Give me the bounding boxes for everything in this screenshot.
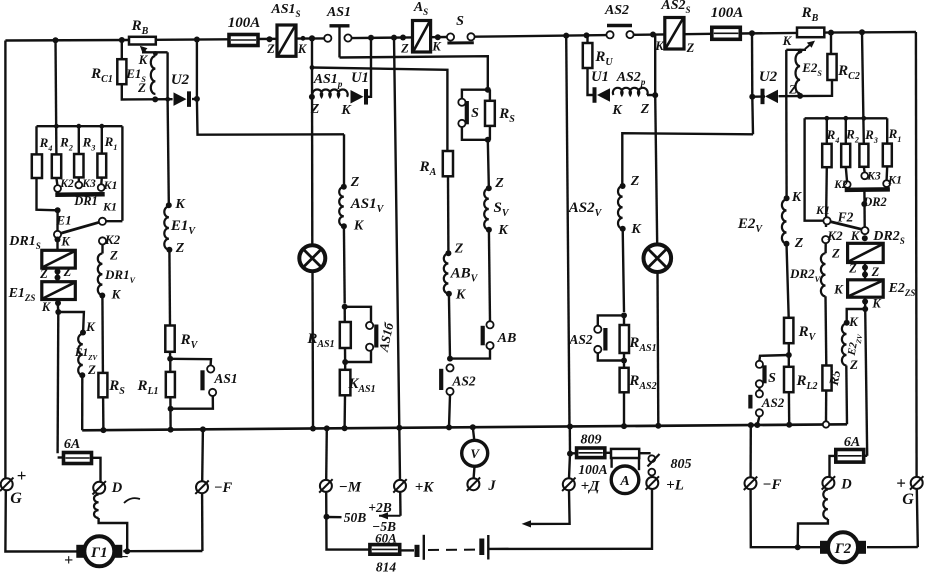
coil E1_S — [151, 56, 156, 94]
wire left border lower — [5, 490, 83, 551]
svg-text:K: K — [455, 288, 467, 303]
contact S bar — [447, 41, 473, 44]
wire E2zs column down — [865, 309, 867, 456]
contact AS2 bar — [607, 24, 632, 27]
shunt box — [611, 449, 639, 458]
svg-text:K: K — [630, 222, 642, 237]
wire V meter top — [473, 427, 475, 440]
svg-text:100А: 100А — [711, 5, 744, 21]
node top bus / lamp2 branch — [650, 32, 656, 38]
node S_V Z — [486, 185, 492, 191]
node RAS1r bottom — [621, 358, 627, 364]
node SRS bottom — [485, 137, 491, 143]
blade 805 — [648, 454, 660, 467]
wire top bus AS2 to AS2s relay — [633, 33, 665, 36]
svg-text:K: K — [85, 319, 96, 334]
svg-text:Z: Z — [454, 242, 464, 257]
terminal -M — [320, 480, 332, 492]
wire R_C1 top lead — [121, 40, 123, 59]
wire to E2zv coil — [847, 309, 866, 321]
svg-text:АS2: АS2 — [451, 374, 476, 389]
resistor R_B1 — [129, 37, 156, 45]
wire junction to E1 contact — [56, 210, 58, 231]
svg-text:AS1: AS1 — [213, 371, 237, 386]
coil E2_V — [782, 200, 787, 244]
node AS1s out — [301, 36, 306, 41]
wire shunt left down — [610, 458, 612, 468]
wire RAS1r top lead — [623, 315, 625, 325]
node -F left top — [200, 426, 206, 432]
wire R bank 1 box top — [37, 125, 123, 127]
meter V — [462, 440, 488, 466]
svg-text:Г1: Г1 — [90, 545, 108, 561]
wire RAS1 top lead — [344, 307, 346, 322]
svg-text:D: D — [111, 480, 123, 496]
contact AS1b top — [366, 322, 373, 329]
wire top bus S to AS2 contact — [474, 35, 607, 37]
svg-text:K2: K2 — [59, 178, 74, 190]
wire mid column — [566, 36, 569, 427]
node DR2s K — [862, 235, 868, 241]
wire R3r bottom lead — [863, 167, 866, 172]
svg-text:Г2: Г2 — [834, 541, 852, 557]
resistor R2 bank1 — [52, 154, 61, 178]
wire R_U top lead — [586, 36, 588, 43]
contact K2 (DR1v) — [99, 237, 106, 244]
svg-text:А: А — [619, 474, 629, 489]
svg-text:100А: 100А — [578, 462, 607, 477]
svg-text:50В: 50В — [344, 510, 367, 525]
wire D r coil to G2 wire — [798, 519, 828, 547]
contact AS2 btn top — [446, 364, 453, 371]
resistor R5 — [822, 366, 831, 391]
svg-text:K3: K3 — [81, 178, 96, 190]
wire R4r bottom lead — [825, 167, 828, 227]
wire RL2 leads — [788, 355, 790, 367]
contact AS1b bottom — [366, 344, 373, 351]
svg-text:814: 814 — [376, 560, 397, 575]
wire U2 to node — [192, 98, 197, 100]
contact K3 bank2 — [861, 172, 868, 179]
resistor R4 bank2 — [822, 144, 831, 167]
wire R_C1 bottom lead — [122, 84, 173, 99]
wire branch to R_A — [312, 68, 447, 152]
terminal -F left — [196, 481, 208, 493]
relay AS1_S — [277, 25, 296, 56]
svg-text:100А: 100А — [228, 15, 261, 31]
wire U1 to bus — [365, 38, 371, 97]
terminal +L — [646, 477, 658, 489]
switch arm F2 — [830, 222, 862, 230]
wire R bank 1 box right — [121, 126, 123, 221]
node box2 top R2 — [843, 116, 848, 121]
wiper arrow R_B2 — [805, 43, 812, 49]
wire E2zv to bus end — [845, 366, 848, 425]
wire battery dashed — [428, 549, 477, 551]
wire +K lower — [399, 492, 402, 516]
node E1_S top — [153, 51, 158, 56]
wire SRS left lower — [462, 127, 488, 140]
wire fuse60 to battery — [400, 549, 414, 551]
resistor R_AS1 left — [340, 322, 351, 348]
svg-text:+L: +L — [666, 478, 684, 494]
wire R bank 1 box left — [37, 126, 58, 210]
relay DR2_S — [848, 243, 884, 262]
svg-text:Z: Z — [350, 175, 360, 190]
node bottom bus / R_S — [100, 427, 106, 433]
wire DR1v to R_S — [101, 295, 104, 373]
node E2_S bottom — [797, 93, 803, 99]
contact 805 bottom — [648, 469, 655, 476]
resistor R_B2 — [797, 28, 824, 38]
wire E2v to R_V — [787, 244, 789, 318]
coil E2_S — [795, 53, 800, 94]
node K below E1 — [55, 237, 61, 243]
wire shunt to 805 — [639, 452, 650, 454]
contact K3 bank1 — [75, 182, 82, 189]
wire fuse6Ar right lead — [864, 455, 868, 457]
contact blade AS2 btn2 — [603, 328, 607, 351]
svg-text:Z: Z — [871, 265, 880, 279]
svg-text:АS2: АS2 — [761, 395, 785, 410]
node box2 top R4 — [824, 116, 829, 121]
svg-text:АВ: АВ — [497, 331, 517, 346]
svg-text:+2В: +2В — [368, 500, 391, 515]
node top bus / R_C2 — [828, 30, 834, 36]
svg-text:K: K — [111, 287, 122, 302]
wire top bus AS2s to fuse — [684, 33, 712, 36]
node top bus / R bank 1 — [53, 37, 59, 43]
svg-text:Z: Z — [794, 236, 804, 251]
node RAS1 bottom — [342, 359, 348, 365]
wire top bus AS1s to AS1 contact — [296, 37, 325, 40]
resistor R_S mid — [485, 101, 495, 126]
coil AS1_P — [312, 89, 347, 96]
coil D right — [823, 490, 828, 520]
wire to S contact r — [759, 355, 788, 361]
diode U1 right — [597, 88, 610, 102]
svg-text:U1: U1 — [591, 69, 609, 85]
svg-text:K: K — [340, 103, 352, 118]
wire -M column — [325, 428, 328, 480]
node E1zs K — [55, 300, 61, 306]
contact AS2 btn2 bottom — [594, 346, 601, 353]
contact blade AS2 r — [748, 395, 752, 409]
svg-text:V: V — [470, 446, 480, 461]
contact AS2 btn2 top — [594, 326, 601, 333]
node E2zs K — [862, 299, 868, 305]
resistor R3 bank1 — [74, 154, 83, 177]
wire -F left column — [201, 429, 204, 481]
contact blade AS1b — [374, 325, 378, 348]
contact S right circle — [467, 33, 474, 40]
wire to AS1 contact — [170, 359, 211, 365]
resistor R_V right — [784, 318, 793, 343]
svg-text:809: 809 — [581, 433, 602, 448]
wire R bank 2 box top — [805, 117, 888, 119]
node RVr bottom — [786, 352, 792, 358]
wire RAS1-KAS1 link — [344, 348, 347, 370]
svg-text:6А: 6А — [64, 437, 80, 452]
node lamp1 column top — [309, 35, 315, 41]
node top bus / R bank 2 — [859, 29, 865, 35]
svg-text:Z: Z — [494, 176, 504, 191]
wire R_U bottom lead — [588, 68, 594, 95]
wire U2 node down — [197, 99, 344, 135]
coil E1_V — [164, 207, 169, 250]
resistor R_C1 — [117, 59, 126, 84]
resistor R_AS1 right — [620, 325, 629, 353]
wire AS2v down — [623, 229, 624, 312]
terminal D right — [822, 477, 834, 489]
node E1v K — [166, 202, 172, 208]
resistor R2 bank2 — [841, 144, 850, 167]
wire R5 to bus — [825, 391, 828, 422]
svg-text:K: K — [174, 197, 186, 212]
node lamp1 branch — [310, 65, 315, 70]
node bottom bus / +K — [396, 425, 402, 431]
fuse 100A left — [229, 35, 258, 46]
svg-text:K: K — [833, 282, 844, 297]
contact AB bottom — [486, 342, 493, 349]
node E2_S top — [798, 49, 803, 54]
svg-text:Z: Z — [630, 174, 640, 189]
node E1_S bottom — [152, 96, 158, 102]
terminal +D — [563, 478, 575, 490]
wire E1zs column down — [56, 312, 59, 453]
node bottom bus / lamp2 — [655, 423, 661, 429]
wire lamp2 column mid — [655, 95, 657, 245]
terminal D left — [93, 482, 105, 494]
node E2zv branch — [862, 306, 868, 312]
svg-text:Z: Z — [848, 262, 857, 276]
contact blade S (RS) — [465, 101, 469, 124]
node bottom bus / R_L2 — [786, 422, 792, 428]
wire bottom bus — [82, 424, 847, 430]
contact bar DR2 — [845, 187, 890, 192]
terminal +K — [394, 480, 406, 492]
node E2zs top — [862, 272, 868, 278]
svg-text:S: S — [456, 14, 464, 29]
svg-text:K: K — [848, 314, 859, 329]
arrow +K left — [379, 515, 401, 517]
contact bar DR1 — [55, 192, 104, 197]
lamp HL2 — [644, 244, 672, 272]
wire RS leads — [489, 90, 491, 101]
wire branch to S-RS — [340, 56, 488, 87]
wire AS1v column upper — [343, 134, 345, 184]
wire SRS to S_V — [488, 140, 489, 186]
wire +K column — [394, 38, 400, 480]
contact AS2 btn bottom — [446, 388, 453, 395]
wire R bank 2 box left — [805, 118, 824, 220]
node top bus / R_U — [584, 32, 590, 38]
fuse 60A — [370, 545, 400, 555]
wire S_V to AB contact — [489, 230, 490, 322]
resistor R1 bank2 — [883, 144, 892, 167]
resistor R_S left — [98, 373, 107, 397]
wire AS2 r to bus — [757, 416, 759, 425]
fuse 6A right — [836, 450, 864, 463]
contact K1 bank2 — [883, 180, 890, 187]
wire +D arrow line — [530, 490, 570, 524]
wire E1zs K lead — [56, 300, 59, 313]
wire wiper to bypass r — [786, 49, 806, 51]
wire R_S to bus — [102, 397, 105, 430]
node bottom bus / K_AS1 — [342, 425, 348, 431]
relay AS2_S — [665, 18, 684, 50]
svg-text:F2: F2 — [837, 210, 854, 225]
wire R_L1 to bus — [169, 397, 172, 429]
node top bus / R_C1 — [119, 37, 125, 43]
wire R_C2 top lead — [830, 32, 832, 54]
diode U2 left — [174, 92, 187, 106]
wire lamp1 column upper — [311, 38, 313, 67]
diode U1 left — [351, 90, 364, 104]
svg-text:K: K — [782, 33, 793, 48]
contact AS1 bar — [330, 24, 350, 27]
node AB_V K — [446, 291, 452, 297]
wire E2_V branch — [785, 96, 788, 196]
contact AB top — [486, 321, 493, 328]
node bottom bus / AS2 contact r — [754, 422, 760, 428]
svg-text:K2: K2 — [826, 228, 843, 243]
node E1v Z — [166, 247, 172, 253]
node top bus / mid column — [563, 33, 569, 39]
node top bus / U2 branch — [194, 37, 200, 43]
svg-text:Z: Z — [137, 80, 146, 95]
node fuse-AS1s — [267, 36, 273, 42]
resistor K_AS1 — [340, 370, 351, 396]
wire DR2s-E2zs link — [864, 263, 866, 280]
wire 809 right lead — [605, 452, 611, 454]
wire top bus R_B1 to fuse — [156, 38, 228, 41]
svg-text:Z: Z — [175, 241, 185, 256]
node SRS top — [485, 87, 491, 93]
wire R4r top lead — [826, 118, 828, 144]
battery plate 2 short — [479, 539, 484, 556]
svg-text:Z: Z — [87, 362, 96, 377]
svg-text:805: 805 — [671, 457, 692, 472]
wire E1v to R_V — [168, 250, 171, 326]
generator G2 — [820, 541, 829, 554]
wire 50V stub — [327, 516, 342, 519]
battery plate 2 long — [487, 535, 489, 560]
wire battery to +L — [488, 487, 652, 549]
wire D coil to G1 wire — [99, 518, 128, 551]
contact blade AB — [481, 326, 485, 346]
contact K1 bank1 — [98, 184, 105, 191]
svg-text:K: K — [138, 52, 149, 67]
wire KAS1 to bus — [343, 395, 346, 428]
svg-text:+: + — [17, 466, 27, 485]
coil AS2_V — [618, 186, 623, 229]
fuse 100A right — [712, 27, 741, 39]
wire bus to 809 node — [569, 427, 572, 454]
wire R3 top lead — [78, 126, 80, 154]
wire E2zs K lead — [864, 297, 867, 309]
wire AS2 btn2 branch — [598, 315, 624, 325]
contact K2 bank2 — [844, 181, 851, 188]
wire E1_V branch — [168, 99, 169, 203]
contact AS1 right circle — [344, 34, 351, 41]
contact K1 pivot 2 — [823, 217, 830, 224]
svg-text:Z: Z — [640, 102, 650, 117]
resistor R_V left — [165, 326, 174, 352]
node RAS1 top — [342, 304, 348, 310]
contact S bottom (RS) — [458, 120, 465, 127]
node box top R2 — [54, 124, 59, 129]
wire R2r bottom lead — [846, 167, 847, 181]
contact E1 — [54, 231, 61, 238]
svg-text:K2: K2 — [104, 232, 121, 247]
wire G2 to border — [867, 546, 918, 549]
svg-text:Z: Z — [63, 265, 72, 279]
wire R_A down — [447, 176, 450, 251]
node AS1_V K — [341, 223, 347, 229]
wire top bus fuse to R_B2 — [740, 32, 797, 35]
contact AS1 left circle — [324, 35, 331, 42]
node box top R1 — [99, 124, 104, 129]
wire V meter bottom — [472, 466, 475, 478]
wire DR1s-E1zs link — [56, 268, 58, 282]
wire R_L1 leads — [169, 359, 171, 372]
svg-text:G: G — [10, 490, 22, 507]
coil D left — [94, 495, 99, 519]
svg-text:AS1: AS1 — [326, 5, 351, 20]
node R3r column — [861, 201, 867, 207]
contact S r top — [756, 361, 763, 368]
wire RAS1 btn branch — [345, 307, 371, 322]
wire AS1b lower — [345, 351, 371, 362]
wire top bus left segment — [5, 39, 129, 42]
wire AS1 bar stem — [338, 26, 340, 58]
wire AS1v to RAS1 — [343, 226, 346, 303]
svg-text:S: S — [768, 371, 776, 386]
wire right border — [915, 32, 918, 477]
contact K2 (DR2v) — [822, 236, 829, 243]
wire wiper to bypass — [142, 51, 168, 53]
wire R1r top lead — [886, 118, 888, 143]
wire AS2v column upper — [622, 133, 753, 184]
node E2v K — [784, 195, 790, 201]
coil E1_ZV — [78, 334, 83, 376]
wire bus to R2 bank — [54, 40, 57, 154]
node E2zv K — [844, 320, 850, 326]
wire -F r lower — [751, 490, 823, 548]
wiper arrow R_B1 — [142, 49, 146, 53]
node AS1_V Z — [341, 184, 347, 190]
wire 805 to +L — [651, 476, 654, 479]
contact AS1 top (R_L1) — [207, 365, 214, 372]
node AB_V Z — [445, 250, 451, 256]
node U2 left out — [194, 96, 200, 102]
node R_L1 bottom — [168, 406, 174, 412]
node G2 left wire — [795, 544, 801, 550]
node E2v Z — [784, 241, 790, 247]
node AS1p in — [309, 94, 315, 100]
wire top bus AS1 to As relay — [351, 36, 413, 39]
relay E2_ZS — [848, 280, 884, 297]
wire DR2v to R5 — [824, 296, 827, 365]
node top bus / +K column — [391, 35, 397, 41]
svg-text:Z: Z — [788, 82, 797, 97]
svg-text:K: K — [791, 190, 803, 205]
wire U2r to node — [752, 95, 765, 98]
fuse 6A left — [64, 453, 92, 464]
svg-text:U1: U1 — [351, 70, 369, 86]
wire -F to G1 wire — [201, 494, 204, 552]
